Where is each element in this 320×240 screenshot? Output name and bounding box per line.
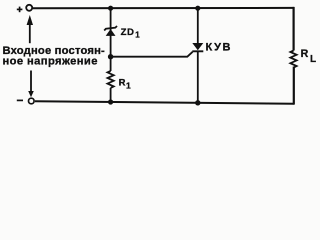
wire bottom rail [35,101,294,104]
wire gate [111,52,193,57]
terminal + (positive input) [17,5,32,12]
svg-text:R: R [301,48,309,60]
svg-text:R: R [119,77,126,88]
wire right side [293,7,295,105]
zener diode ZD1 [104,26,117,36]
svg-text:ZD: ZD [121,27,135,38]
label ZD1 [121,27,141,40]
node: bottom junction SCR [195,100,200,105]
svg-text:L: L [310,54,316,65]
wire ZD1/R1 branch [110,8,112,71]
svg-text:ное напряжение: ное напряжение [3,56,98,68]
node: bottom junction R1 [108,99,113,104]
arrow to + terminal [27,15,33,43]
resistor R1 [108,71,114,88]
label R1 [119,77,131,90]
label RL [301,48,317,65]
svg-text:КУВ: КУВ [206,42,233,54]
wire top rail [33,7,295,9]
arrow to − terminal [28,71,34,98]
resistor RL [290,51,296,68]
wire below R1 [110,88,112,102]
node: top junction ZD1 [108,6,113,11]
terminal − (negative input) [17,98,34,104]
svg-text:1: 1 [126,81,131,91]
node: top junction SCR [195,6,200,11]
thyristor КУВ (SCR) [192,8,203,103]
node: gate junction [108,54,113,59]
svg-text:1: 1 [135,31,140,40]
label: Входное постоянное напряжение [3,45,106,67]
